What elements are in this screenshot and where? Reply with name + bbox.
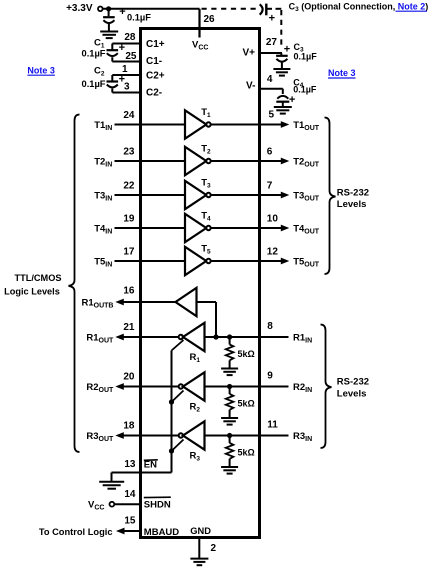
svg-text:5kΩ: 5kΩ bbox=[238, 399, 255, 409]
svg-text:21: 21 bbox=[123, 322, 135, 333]
svg-text:10: 10 bbox=[267, 214, 279, 225]
svg-text:EN: EN bbox=[144, 460, 157, 471]
svg-text:27: 27 bbox=[266, 37, 278, 48]
svg-text:+: + bbox=[284, 43, 290, 55]
svg-text:Logic Levels: Logic Levels bbox=[4, 286, 60, 296]
svg-text:+: + bbox=[289, 94, 295, 106]
svg-text:7: 7 bbox=[267, 181, 273, 192]
svg-text:+3.3V: +3.3V bbox=[66, 3, 93, 14]
svg-text:14: 14 bbox=[124, 489, 136, 500]
svg-text:C1+: C1+ bbox=[146, 39, 165, 50]
svg-text:19: 19 bbox=[123, 213, 135, 224]
svg-text:22: 22 bbox=[123, 180, 135, 191]
svg-text:To Control Logic: To Control Logic bbox=[39, 527, 113, 537]
svg-text:1: 1 bbox=[122, 64, 128, 75]
svg-text:RS-232: RS-232 bbox=[337, 377, 369, 388]
svg-text:0.1µF: 0.1µF bbox=[82, 49, 106, 59]
svg-text:20: 20 bbox=[123, 372, 135, 383]
svg-text:11: 11 bbox=[267, 420, 278, 431]
svg-text:C2-: C2- bbox=[146, 88, 162, 99]
svg-text:12: 12 bbox=[267, 247, 279, 258]
svg-text:23: 23 bbox=[123, 146, 135, 157]
svg-text:RS-232: RS-232 bbox=[337, 188, 369, 199]
svg-text:GND: GND bbox=[190, 526, 211, 536]
svg-text:SHDN: SHDN bbox=[144, 499, 171, 510]
svg-text:4: 4 bbox=[267, 74, 273, 85]
svg-text:17: 17 bbox=[123, 246, 135, 257]
svg-text:C1-: C1- bbox=[146, 56, 162, 67]
svg-text:0.1µF: 0.1µF bbox=[127, 12, 151, 22]
svg-text:3: 3 bbox=[124, 82, 130, 93]
svg-text:Levels: Levels bbox=[337, 388, 367, 399]
svg-text:0.1µF: 0.1µF bbox=[294, 52, 318, 62]
svg-text:+: + bbox=[119, 6, 125, 18]
svg-text:6: 6 bbox=[267, 147, 273, 158]
svg-text:18: 18 bbox=[123, 421, 135, 432]
svg-text:0.1µF: 0.1µF bbox=[293, 85, 317, 95]
svg-text:28: 28 bbox=[124, 32, 136, 43]
svg-text:V+: V+ bbox=[242, 48, 255, 59]
svg-text:TTL/CMOS: TTL/CMOS bbox=[15, 273, 62, 283]
svg-text:V-: V- bbox=[246, 80, 255, 91]
svg-text:+: + bbox=[269, 13, 275, 25]
svg-text:25: 25 bbox=[125, 51, 137, 62]
svg-text:9: 9 bbox=[267, 371, 273, 382]
svg-text:15: 15 bbox=[124, 516, 136, 527]
svg-text:MBAUD: MBAUD bbox=[144, 527, 179, 538]
svg-text:13: 13 bbox=[124, 459, 136, 470]
svg-text:5kΩ: 5kΩ bbox=[238, 349, 255, 359]
svg-text:24: 24 bbox=[123, 110, 135, 121]
svg-text:2: 2 bbox=[211, 543, 217, 554]
svg-text:5: 5 bbox=[269, 110, 275, 121]
svg-text:Note 3: Note 3 bbox=[328, 68, 356, 78]
svg-text:5kΩ: 5kΩ bbox=[238, 448, 255, 458]
svg-text:Levels: Levels bbox=[337, 199, 367, 210]
svg-text:26: 26 bbox=[204, 14, 216, 25]
svg-text:8: 8 bbox=[267, 321, 273, 332]
svg-text:0.1µF: 0.1µF bbox=[82, 79, 106, 89]
svg-text:16: 16 bbox=[123, 285, 135, 296]
svg-text:Note 3: Note 3 bbox=[27, 65, 55, 75]
svg-text:+: + bbox=[119, 42, 125, 54]
svg-text:C2+: C2+ bbox=[146, 71, 165, 82]
